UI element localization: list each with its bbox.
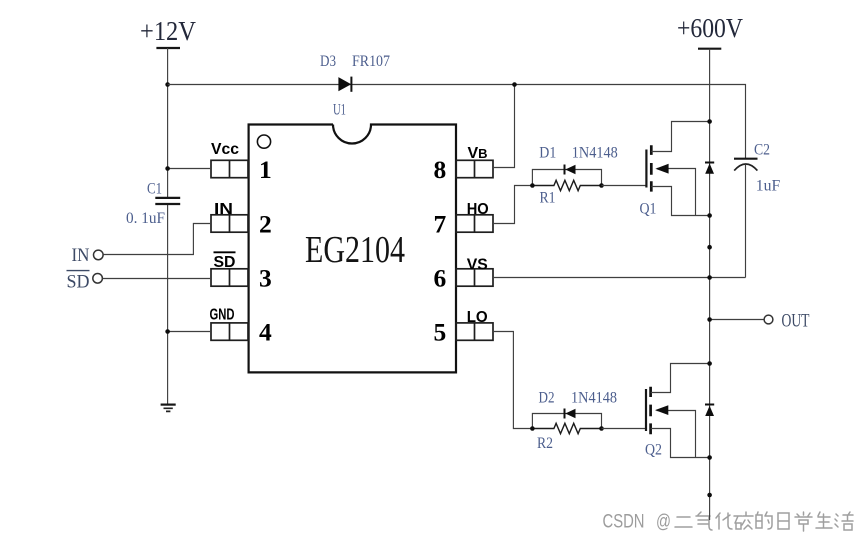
op IC U1 body [249,125,456,373]
node VB tap [512,82,517,87]
label R1 [540,190,556,207]
label D1 type [572,145,618,162]
svg-text:8: 8 [434,155,447,184]
power +600V bar [698,48,721,50]
label C2 [754,142,770,159]
terminal OUT [764,315,773,324]
svg-text:4: 4 [259,318,272,347]
pin 5 box [456,323,493,340]
diode D2 branch [532,409,601,429]
svg-text:CSDN: CSDN [603,512,645,533]
diode D3 [338,77,351,92]
svg-text:1: 1 [259,155,272,184]
wire VS [493,277,746,279]
pin number 7 [434,210,447,239]
wire +12V rail [167,48,169,404]
label IN [72,245,90,266]
svg-text:LO: LO [467,309,488,326]
pin 8 box [456,160,493,177]
pin 3 box [211,269,248,286]
node R1 left [530,183,535,188]
wire top bootstrap [168,85,746,159]
svg-text:+600V: +600V [677,13,743,43]
node R2 left [530,426,535,431]
svg-text:1N4148: 1N4148 [571,390,617,407]
resistor R1 [532,180,601,190]
svg-text:D1: D1 [539,145,556,162]
svg-text:FR107: FR107 [352,53,390,70]
label U1 [333,102,346,119]
label pin HO [467,201,489,218]
svg-text:@: @ [656,512,671,533]
pin number 8 [434,155,447,184]
pin number 6 [434,264,447,293]
label SD [67,271,90,293]
label pin SD [214,252,236,271]
node rail bottom [707,493,712,498]
power +600V label [677,13,743,43]
label pin LO [467,309,488,326]
pin number 2 [259,210,272,239]
capacitor C1 [155,198,180,204]
diode Q1 body [705,163,714,174]
svg-text:2: 2 [259,210,272,239]
svg-text:IN: IN [72,245,90,266]
svg-text:1uF: 1uF [756,178,781,195]
svg-text:6: 6 [434,264,447,293]
svg-text:U1: U1 [333,102,346,119]
pin number 1 [259,155,272,184]
wire OUT [710,319,765,321]
label D2 type [571,390,617,407]
label pin Vcc [211,141,239,158]
svg-text:5: 5 [434,318,447,347]
pin number 3 [259,264,272,293]
wire HO [493,186,532,224]
resistor R2 [532,423,601,433]
svg-text:IN: IN [214,201,233,218]
svg-text:1N4148: 1N4148 [572,145,618,162]
label Q2 [645,442,662,459]
svg-text:SD: SD [214,254,236,271]
svg-text:VB: VB [468,145,488,162]
svg-text:R1: R1 [540,190,556,207]
svg-text:D2: D2 [539,390,555,407]
svg-text:Q2: Q2 [645,442,662,459]
label FR107 [352,53,390,70]
power +12V bar [156,47,180,49]
node R1 right [599,183,604,188]
pin number 4 [259,318,272,347]
node Q1 source [707,213,712,218]
node rail mid [707,245,712,250]
wire SD to pin3 [103,278,212,280]
label D2 [539,390,555,407]
svg-text:D3: D3 [320,53,336,70]
svg-text:+12V: +12V [140,16,196,46]
node Q2 source [707,455,712,460]
svg-text:OUT: OUT [782,310,810,331]
node VS rail [707,275,712,280]
label D3 [320,53,336,70]
node Q1 drain [707,119,712,124]
node Vcc junction [165,166,170,171]
label pin IN [214,201,233,218]
pin 7 box [456,215,493,232]
pin number 5 [434,318,447,347]
node Q2 drain [707,361,712,366]
node OUT junction [707,317,712,322]
capacitor C2 [734,159,758,278]
diode Q2 body [705,405,714,417]
label C2 value [756,178,781,195]
wire LO [493,332,532,429]
wire +600V rail [709,49,711,520]
svg-text:VS: VS [467,257,488,274]
svg-text:HO: HO [467,201,489,218]
svg-text:0. 1uF: 0. 1uF [126,210,165,227]
transistor Q2 [646,364,710,458]
wire Vcc [168,168,211,170]
svg-text:Vcc: Vcc [211,141,239,158]
svg-text:R2: R2 [537,435,553,452]
diode D1 branch [532,165,601,186]
label OUT [782,310,810,331]
svg-text:SD: SD [67,271,90,292]
wire GND pin4 [168,331,211,333]
node +12V top junction [165,82,170,87]
terminal SD [93,274,103,284]
pin 4 box [211,323,248,340]
IC pin1 mark [257,135,270,148]
pin 2 box [211,215,248,232]
power +12V label [140,16,196,46]
label R2 [537,435,553,452]
wire VB to top [493,85,515,168]
svg-text:C2: C2 [754,142,770,159]
svg-text:GND: GND [210,307,235,324]
node R2 right [599,426,604,431]
wire Q1 gate [602,185,647,187]
label pin VS [467,257,488,274]
pin 6 box [456,269,493,286]
wire IN to pin2 [103,224,211,255]
terminal IN [94,250,104,260]
label C1 [147,181,162,198]
watermark CSDN [603,512,854,533]
label Q1 [640,201,657,218]
svg-text:Q1: Q1 [640,201,657,218]
node GND junction [165,329,170,334]
svg-text:EG2104: EG2104 [305,229,405,271]
label D1 [539,145,556,162]
wire Q2 gate [602,428,647,430]
transistor Q1 [646,122,709,216]
label C1 value [126,210,165,227]
ground [161,405,176,412]
label pin GND [210,307,235,324]
label pin VB [468,145,488,162]
svg-text:C1: C1 [147,181,162,198]
svg-text:3: 3 [259,264,272,293]
label EG2104 [305,229,405,271]
svg-text:7: 7 [434,210,447,239]
pin 1 box [211,160,248,177]
